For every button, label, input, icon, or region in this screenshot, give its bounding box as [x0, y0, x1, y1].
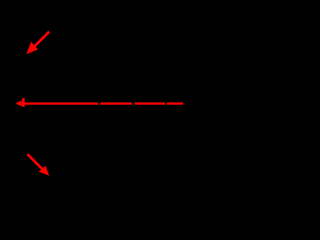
arrow A2 head (left tip) — [16, 100, 22, 106]
occluder gap G2 over A2 shaft — [132, 102, 136, 105]
arrow A1 head — [26, 42, 38, 55]
arrow A2 shaft (horizontal annotation arrow pointing left) — [22, 102, 184, 104]
arrow A3 shaft (lower-left annotation arrow pointing down-right) — [27, 154, 44, 171]
arrow A3 head — [39, 166, 50, 176]
arrow A2 tick bar — [22, 98, 25, 107]
arrow A1 shaft (top-left annotation arrow pointing down-left) — [30, 32, 49, 51]
occluder gap G3 over A2 shaft — [165, 102, 167, 105]
occluder gap G1 over A2 shaft — [98, 102, 100, 105]
